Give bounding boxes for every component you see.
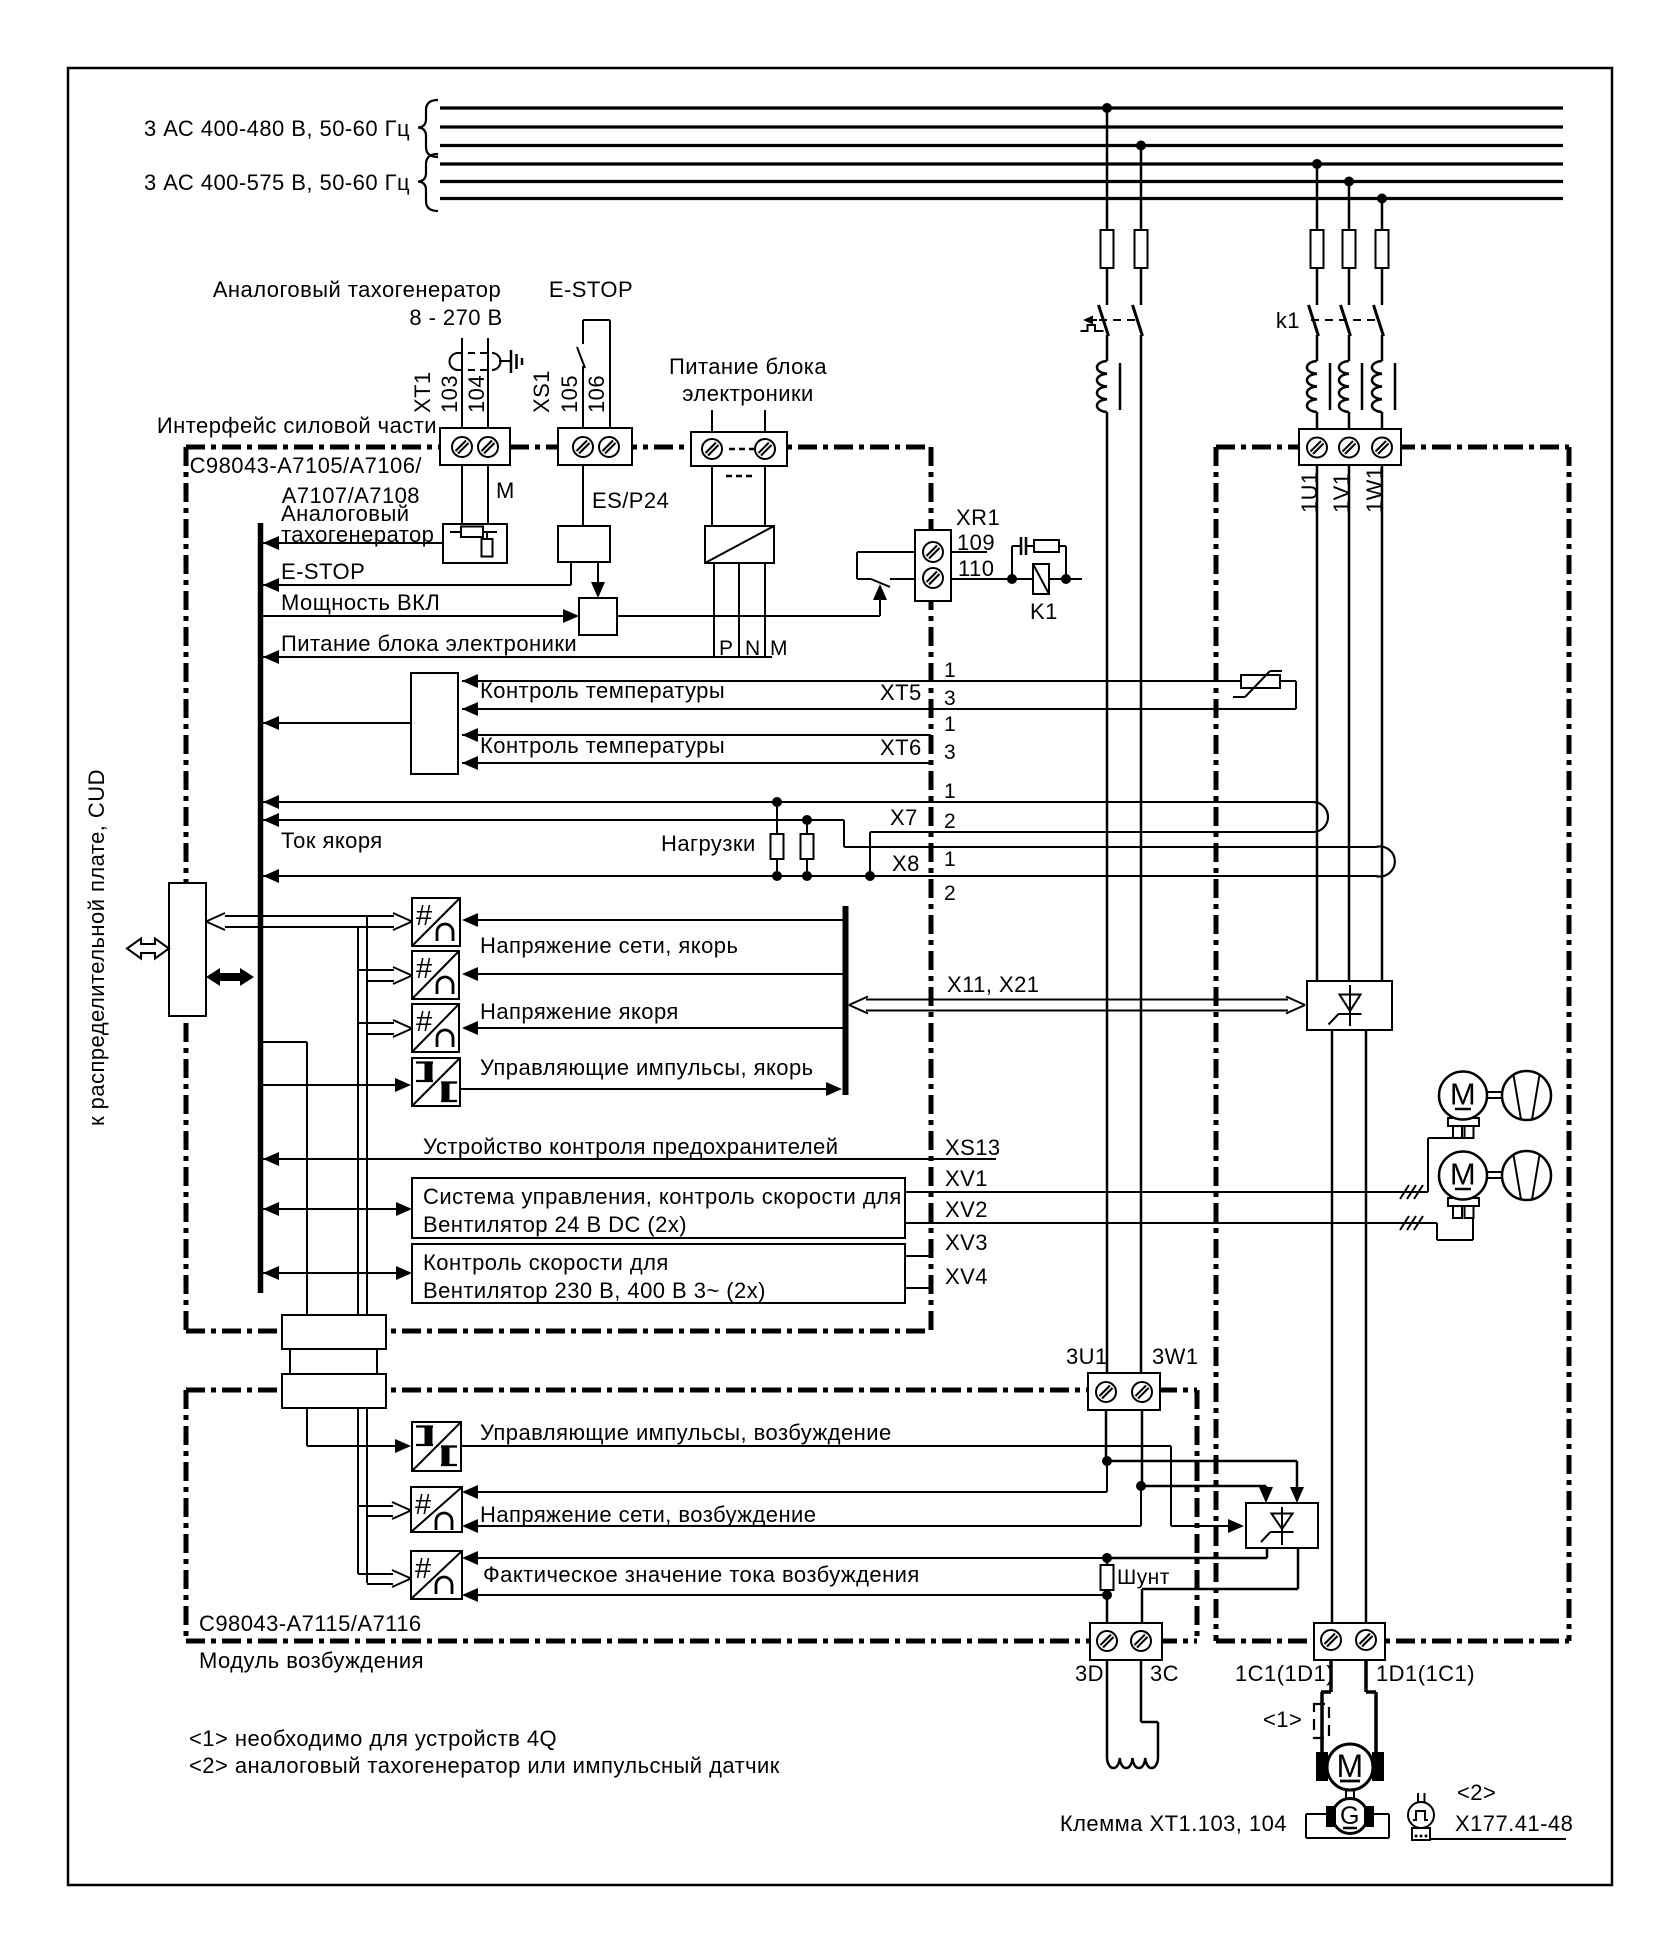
svg-text:тахогенератор: тахогенератор xyxy=(281,522,434,547)
svg-text:Контроль температуры: Контроль температуры xyxy=(480,678,725,703)
svg-text:XT1: XT1 xyxy=(410,371,435,413)
svg-text:XR1: XR1 xyxy=(956,505,1000,530)
svg-text:Модуль возбуждения: Модуль возбуждения xyxy=(199,1648,424,1673)
svg-text:<2>: <2> xyxy=(1457,1780,1496,1805)
svg-text:E-STOP: E-STOP xyxy=(281,559,365,584)
svg-text:Система управления, контроль с: Система управления, контроль скорости дл… xyxy=(423,1184,902,1209)
svg-text:XV3: XV3 xyxy=(945,1230,988,1255)
svg-text:3 АС 400-575 В, 50-60 Гц: 3 АС 400-575 В, 50-60 Гц xyxy=(144,170,410,195)
svg-text:X8: X8 xyxy=(892,851,920,876)
svg-text:электроники: электроники xyxy=(682,381,814,406)
svg-text:G: G xyxy=(1340,1802,1360,1830)
svg-text:2: 2 xyxy=(944,810,956,833)
svg-text:M: M xyxy=(770,637,788,660)
svg-text:Клемма XT1.103, 104: Клемма XT1.103, 104 xyxy=(1060,1811,1287,1836)
svg-text:P: P xyxy=(719,637,733,660)
svg-text:3D: 3D xyxy=(1075,1661,1104,1686)
svg-text:1V1: 1V1 xyxy=(1329,473,1354,514)
svg-text:Управляющие импульсы, возбужде: Управляющие импульсы, возбуждение xyxy=(480,1420,892,1445)
svg-text:XS1: XS1 xyxy=(529,370,554,413)
svg-text:1C1(1D1): 1C1(1D1) xyxy=(1235,1661,1334,1686)
svg-text:3W1: 3W1 xyxy=(1152,1344,1199,1369)
svg-text:1W1: 1W1 xyxy=(1362,466,1387,513)
svg-text:M: M xyxy=(1450,1077,1476,1112)
svg-text:105: 105 xyxy=(557,375,582,413)
svg-text:8 - 270 В: 8 - 270 В xyxy=(409,305,502,330)
svg-text:<1>: <1> xyxy=(1263,1707,1302,1732)
svg-text:Нагрузки: Нагрузки xyxy=(661,831,756,856)
svg-text:M: M xyxy=(1336,1748,1363,1784)
svg-text:109: 109 xyxy=(957,530,995,555)
svg-text:Напряжение сети, возбуждение: Напряжение сети, возбуждение xyxy=(480,1502,816,1527)
svg-text:104: 104 xyxy=(464,375,489,413)
svg-text:1: 1 xyxy=(944,848,956,871)
svg-text:1: 1 xyxy=(944,659,956,682)
svg-text:Мощность ВКЛ: Мощность ВКЛ xyxy=(281,590,440,615)
svg-text:<1> необходимо для устройств 4: <1> необходимо для устройств 4Q xyxy=(189,1726,557,1751)
svg-text:Интерфейс силовой части: Интерфейс силовой части xyxy=(157,413,437,438)
svg-text:Вентилятор 24 В DC (2x): Вентилятор 24 В DC (2x) xyxy=(423,1212,687,1237)
svg-text:Шунт: Шунт xyxy=(1117,1566,1170,1589)
svg-text:Аналоговый тахогенератор: Аналоговый тахогенератор xyxy=(213,277,501,302)
svg-text:XT5: XT5 xyxy=(880,680,922,705)
svg-text:k1: k1 xyxy=(1276,308,1300,333)
svg-text:E-STOP: E-STOP xyxy=(549,277,633,302)
svg-text:2: 2 xyxy=(944,882,956,905)
svg-text:XS13: XS13 xyxy=(945,1135,1001,1160)
svg-text:Устройство контроля предохрани: Устройство контроля предохранителей xyxy=(423,1134,838,1159)
svg-text:M: M xyxy=(1450,1157,1476,1192)
svg-text:#: # xyxy=(416,1006,433,1038)
svg-text:#: # xyxy=(416,953,433,985)
svg-text:110: 110 xyxy=(958,556,994,581)
svg-text:106: 106 xyxy=(584,375,609,413)
svg-text:Питание блока: Питание блока xyxy=(669,354,827,379)
svg-text:Фактическое значение тока возб: Фактическое значение тока возбуждения xyxy=(483,1562,920,1587)
svg-text:Напряжение сети, якорь: Напряжение сети, якорь xyxy=(480,933,738,958)
svg-text:1D1(1C1): 1D1(1C1) xyxy=(1376,1661,1475,1686)
svg-text:K1: K1 xyxy=(1030,599,1058,624)
svg-text:#: # xyxy=(415,1489,432,1521)
svg-text:3: 3 xyxy=(944,741,956,764)
svg-text:1: 1 xyxy=(944,780,956,803)
svg-text:М: М xyxy=(496,478,515,503)
svg-text:3 АС 400-480 В, 50-60 Гц: 3 АС 400-480 В, 50-60 Гц xyxy=(144,116,410,141)
svg-text:103: 103 xyxy=(437,375,462,413)
svg-text:Вентилятор 230 В, 400 В 3~ (2x: Вентилятор 230 В, 400 В 3~ (2x) xyxy=(423,1278,766,1303)
svg-text:3C: 3C xyxy=(1150,1661,1179,1686)
svg-text:X7: X7 xyxy=(890,805,918,830)
svg-text:Напряжение якоря: Напряжение якоря xyxy=(480,999,679,1024)
svg-text:1U1: 1U1 xyxy=(1297,471,1322,513)
svg-text:XV1: XV1 xyxy=(945,1166,988,1191)
svg-text:Питание блока электроники: Питание блока электроники xyxy=(281,631,577,656)
svg-text:N: N xyxy=(745,637,761,660)
svg-text:XT6: XT6 xyxy=(880,735,922,760)
svg-text:Контроль температуры: Контроль температуры xyxy=(480,733,725,758)
svg-text:Ток якоря: Ток якоря xyxy=(281,828,383,853)
svg-text:3: 3 xyxy=(944,687,956,710)
svg-text:<2> аналоговый тахогенератор и: <2> аналоговый тахогенератор или импульс… xyxy=(189,1753,780,1778)
svg-text:#: # xyxy=(415,1553,432,1585)
svg-text:Контроль скорости для: Контроль скорости для xyxy=(423,1250,669,1275)
svg-text:Управляющие импульсы, якорь: Управляющие импульсы, якорь xyxy=(480,1055,814,1080)
svg-text:XV2: XV2 xyxy=(945,1197,988,1222)
svg-text:C98043-A7105/A7106/: C98043-A7105/A7106/ xyxy=(190,453,423,478)
svg-text:#: # xyxy=(416,900,433,932)
svg-text:XV4: XV4 xyxy=(945,1264,988,1289)
svg-text:X11, X21: X11, X21 xyxy=(947,972,1039,997)
svg-text:1: 1 xyxy=(944,713,956,736)
svg-text:ES/P24: ES/P24 xyxy=(592,488,669,513)
svg-text:3U1: 3U1 xyxy=(1066,1344,1108,1369)
svg-text:к распределительной плате, CUD: к распределительной плате, CUD xyxy=(84,769,109,1126)
svg-text:C98043-A7115/A7116: C98043-A7115/A7116 xyxy=(199,1611,422,1636)
svg-text:X177.41-48: X177.41-48 xyxy=(1455,1811,1573,1836)
